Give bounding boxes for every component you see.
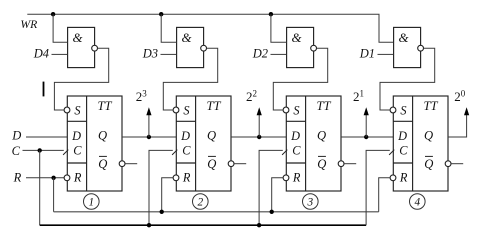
junction C drop — [38, 148, 42, 152]
svg-text:&: & — [72, 30, 83, 45]
pin Qbar of FF1 — [98, 156, 107, 170]
svg-text:WR: WR — [20, 18, 37, 31]
pin S of FF2 — [173, 103, 189, 117]
wire Qbar stub of FF2 — [234, 163, 246, 165]
wire WR bus to gate G1 input — [53, 14, 67, 42]
and-gate G3 box — [287, 27, 314, 67]
pin S of FF4 — [390, 103, 406, 117]
bubble on Qbar of FF2 — [228, 161, 234, 167]
svg-text:R: R — [292, 170, 301, 184]
and-gate G1 box — [68, 27, 95, 67]
circled number 2 — [193, 194, 209, 210]
wire D1 to gate G4 input — [378, 53, 394, 55]
svg-text:C: C — [12, 144, 21, 158]
wire C bus (lower bottom horizontal) — [40, 224, 366, 226]
wire Qbar stub of FF4 — [451, 163, 463, 165]
and-gate G3 inverted output bubble — [311, 45, 317, 51]
junction R drop — [51, 176, 55, 180]
svg-text:D3: D3 — [142, 47, 158, 61]
wire Qbar stub of FF1 — [125, 163, 137, 165]
junction Q3 output tap — [364, 135, 368, 139]
bubble on Qbar of FF3 — [338, 161, 344, 167]
pin S of FF1 — [64, 103, 80, 117]
wire/arrow output 2^1 — [364, 107, 369, 137]
and-gate G1 inverted output bubble — [92, 45, 98, 51]
junction R riser / R bus — [160, 210, 164, 214]
wire Q2 to D of FF3 — [231, 136, 286, 138]
wire gate G4 output to S input of FF4 — [380, 48, 435, 110]
pin C of FF3 (dynamic input slash) — [282, 144, 301, 158]
wire gate G3 output to S input of FF3 — [273, 48, 327, 110]
circled number 4 — [410, 194, 426, 210]
svg-text:R: R — [399, 170, 408, 184]
svg-text:Q: Q — [98, 157, 107, 171]
flip-flop DD1 box — [67, 96, 122, 191]
wire C drop to C bus — [39, 150, 41, 225]
and-gate G2 inverted output bubble — [201, 45, 207, 51]
bubble on Qbar of FF4 — [445, 161, 451, 167]
svg-text:R: R — [73, 170, 82, 184]
svg-text:S: S — [400, 103, 406, 117]
wire R bus (upper bottom horizontal) — [54, 211, 379, 213]
svg-text:C: C — [292, 144, 301, 158]
flip-flop DD2 box — [176, 96, 231, 191]
wire Qbar stub of FF3 — [344, 163, 356, 165]
junction Q2 output tap — [257, 135, 261, 139]
svg-text:Q: Q — [317, 157, 326, 171]
svg-text:2: 2 — [197, 197, 203, 209]
wire WR bus (top horizontal, turns down to gate 4) — [27, 14, 393, 42]
svg-text:1: 1 — [88, 197, 94, 209]
svg-text:D1: D1 — [359, 47, 375, 61]
circled number 3 — [303, 194, 319, 210]
flip-flop DD4 box — [393, 96, 448, 191]
and-gate G4 box — [394, 27, 421, 67]
wire WR bus to gate G3 input — [271, 14, 286, 42]
svg-text:R: R — [182, 170, 191, 184]
wire/arrow output 2^2 — [257, 107, 262, 137]
svg-text:TT: TT — [97, 99, 112, 113]
and-gate G4 inverted output bubble — [418, 45, 424, 51]
and-gate G2 box — [177, 27, 204, 67]
svg-text:TT: TT — [206, 99, 221, 113]
junction WR bus / gate G3 — [269, 12, 273, 16]
pin Qbar of FF2 — [207, 156, 216, 170]
junction C riser / C bus — [257, 223, 261, 227]
wire C bus riser to FF2 C input — [149, 150, 173, 225]
svg-text:D2: D2 — [252, 47, 268, 61]
pin S of FF3 — [283, 103, 299, 117]
svg-text:C: C — [73, 144, 82, 158]
svg-text:Q: Q — [424, 129, 433, 143]
svg-text:Q: Q — [207, 157, 216, 171]
pin R of FF3 — [283, 170, 301, 184]
pin R of FF4 — [390, 170, 408, 184]
svg-text:D: D — [180, 129, 190, 143]
pin C of FF1 (dynamic input slash) — [63, 144, 82, 158]
svg-text:S: S — [293, 103, 299, 117]
junction Q1 output tap — [147, 135, 151, 139]
svg-text:D: D — [397, 129, 407, 143]
svg-text:&: & — [181, 30, 192, 45]
flip-flop DD3 box — [286, 96, 341, 191]
pin R of FF2 — [173, 170, 191, 184]
svg-text:4: 4 — [414, 197, 420, 209]
svg-text:D: D — [71, 129, 81, 143]
pin C of FF2 (dynamic input slash) — [172, 144, 191, 158]
junction R riser / R bus — [270, 210, 274, 214]
junction C riser / C bus — [147, 223, 151, 227]
wire R input line — [26, 177, 64, 179]
wire R drop to R bus — [53, 178, 55, 212]
wire WR bus to gate G2 input — [161, 14, 176, 42]
svg-text:Q: Q — [317, 129, 326, 143]
bubble on Qbar of FF1 — [119, 161, 125, 167]
wire R bus riser to FF3 R input — [272, 178, 283, 212]
svg-text:TT: TT — [423, 99, 438, 113]
svg-text:S: S — [183, 103, 189, 117]
svg-text:D4: D4 — [33, 47, 49, 61]
wire gate G2 output to S input of FF2 — [163, 48, 217, 110]
wire R bus riser to FF4 R input — [379, 178, 390, 212]
svg-text:&: & — [291, 30, 302, 45]
pin Qbar of FF4 — [424, 156, 433, 170]
wire/arrow output 2^3 — [146, 107, 151, 137]
svg-text:3: 3 — [306, 197, 313, 209]
wire R bus riser to FF2 R input — [162, 178, 173, 212]
wire C input line — [23, 149, 64, 151]
pin C of FF4 (dynamic input slash) — [389, 144, 408, 158]
wire C bus riser to FF3 C input — [259, 150, 283, 225]
circled number 1 — [84, 194, 100, 210]
svg-text:TT: TT — [316, 99, 331, 113]
pin R of FF1 — [64, 170, 82, 184]
wire C bus riser to FF4 C input — [366, 150, 390, 225]
wire D3 to gate G2 input — [161, 53, 177, 55]
svg-text:C: C — [399, 144, 408, 158]
svg-text:D: D — [290, 129, 300, 143]
svg-text:Q: Q — [424, 157, 433, 171]
pin Qbar of FF3 — [317, 156, 326, 170]
wire D input to FF1 — [26, 136, 67, 138]
logic-1 bar marker — [43, 82, 45, 97]
wire D2 to gate G3 input — [271, 53, 287, 55]
svg-text:D: D — [11, 128, 21, 142]
svg-text:R: R — [13, 170, 22, 184]
wire D4 to gate G1 input — [52, 53, 68, 55]
junction WR bus / gate G2 — [159, 12, 163, 16]
svg-text:Q: Q — [98, 129, 107, 143]
svg-text:S: S — [74, 103, 80, 117]
junction WR bus / gate G1 — [51, 12, 55, 16]
wire/arrow output 2^0 — [448, 107, 469, 137]
wire Q3 to D of FF4 — [341, 136, 393, 138]
wire Q1 to D of FF2 — [122, 136, 176, 138]
svg-text:&: & — [398, 30, 409, 45]
wire gate G1 output to S input of FF1 — [54, 48, 108, 110]
svg-text:Q: Q — [207, 129, 216, 143]
svg-text:C: C — [182, 144, 191, 158]
